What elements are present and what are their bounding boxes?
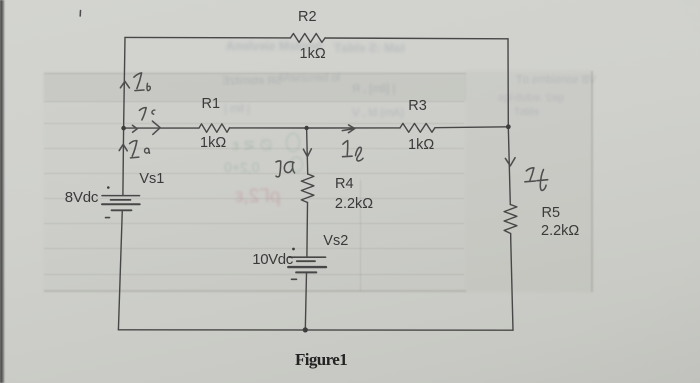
current label If	[526, 168, 534, 181]
resistor R2	[291, 34, 326, 43]
wire left vertical (top corner down to node A)	[124, 37, 125, 128]
faint mirrored bleed-through handwriting (green/pencil)	[232, 136, 273, 154]
resistor R4	[301, 174, 314, 203]
value 2.2kΩ of R5	[541, 223, 579, 239]
wire R5 to bottom-right corner	[511, 238, 513, 330]
value 1kΩ of R1	[200, 135, 226, 151]
wire node A down to Vs1	[122, 128, 125, 195]
current arrow If (down, on right wire)	[505, 158, 515, 166]
label R2	[298, 9, 317, 25]
wire bottom	[118, 329, 513, 331]
node D junction dot	[506, 124, 511, 129]
bleed-through band left (table 1)	[44, 73, 466, 291]
label Vs2	[323, 233, 348, 249]
value 2.2kΩ of R4	[335, 196, 373, 212]
current label Id	[276, 161, 281, 177]
wire R4 to Vs2	[306, 203, 309, 258]
Vs1 minus sign	[106, 217, 110, 219]
faint table row lines	[44, 73, 466, 101]
current label Ia	[130, 141, 137, 157]
dark photo edge left	[0, 0, 5, 383]
label R4	[335, 176, 354, 192]
resistor R5	[504, 205, 517, 239]
wire middle horizontal: node A to R1	[124, 127, 199, 129]
Vs1 plus dot	[107, 186, 110, 189]
voltage source Vs1 battery plates	[102, 195, 140, 197]
faint bleed-through rings near Id	[287, 134, 303, 173]
Vs2 minus sign	[292, 278, 297, 280]
voltage source Vs2 battery plates	[289, 256, 326, 258]
wire top (node B to node F across R2)	[125, 36, 291, 39]
label R5	[542, 205, 561, 221]
value 1kΩ of R2	[300, 46, 326, 62]
label R1	[202, 96, 221, 112]
figure caption	[295, 350, 347, 370]
wire R3 to node D	[435, 126, 508, 129]
current arrow Id (down, on middle branch)	[303, 149, 311, 157]
current label Ie	[343, 141, 353, 157]
wire node C to R3	[307, 127, 400, 129]
label R3	[408, 98, 427, 114]
current label Ic	[139, 108, 146, 120]
wire middle branch: node C to R4	[307, 128, 308, 174]
current arrow Ib (up, on left wire)	[120, 81, 129, 88]
node C junction dot	[304, 126, 308, 130]
label Vs1	[139, 171, 164, 187]
wire node D down to R5	[508, 127, 510, 205]
current arrow Ia (up, on left wire)	[119, 144, 127, 151]
wire R1 to node C	[230, 127, 307, 129]
current arrow Ie (right, on middle wire)	[342, 125, 354, 133]
stray pen tick top-left	[79, 11, 81, 17]
value 1kΩ of R3	[408, 137, 434, 153]
value 10Vdc of Vs2	[252, 251, 293, 268]
current label Ib	[134, 73, 142, 89]
resistor R3	[400, 123, 435, 132]
resistor R1	[199, 124, 230, 133]
Vs2 plus dot	[292, 248, 295, 251]
handwritten current annotations	[80, 11, 548, 191]
wire right vertical: top corner to node D	[507, 39, 509, 127]
bleed-through band right (table 2)	[591, 71, 593, 292]
value 8Vdc of Vs1	[65, 189, 98, 206]
faint mirrored bleed-through print text	[226, 39, 322, 53]
wire Vs2 to bottom node E	[305, 272, 306, 330]
current arrow Ic (right, on middle wire, two chevrons)	[132, 125, 137, 132]
node E junction dot	[303, 327, 308, 332]
wire Vs1 to bottom-left corner	[118, 210, 122, 329]
node A junction dot	[121, 126, 126, 131]
